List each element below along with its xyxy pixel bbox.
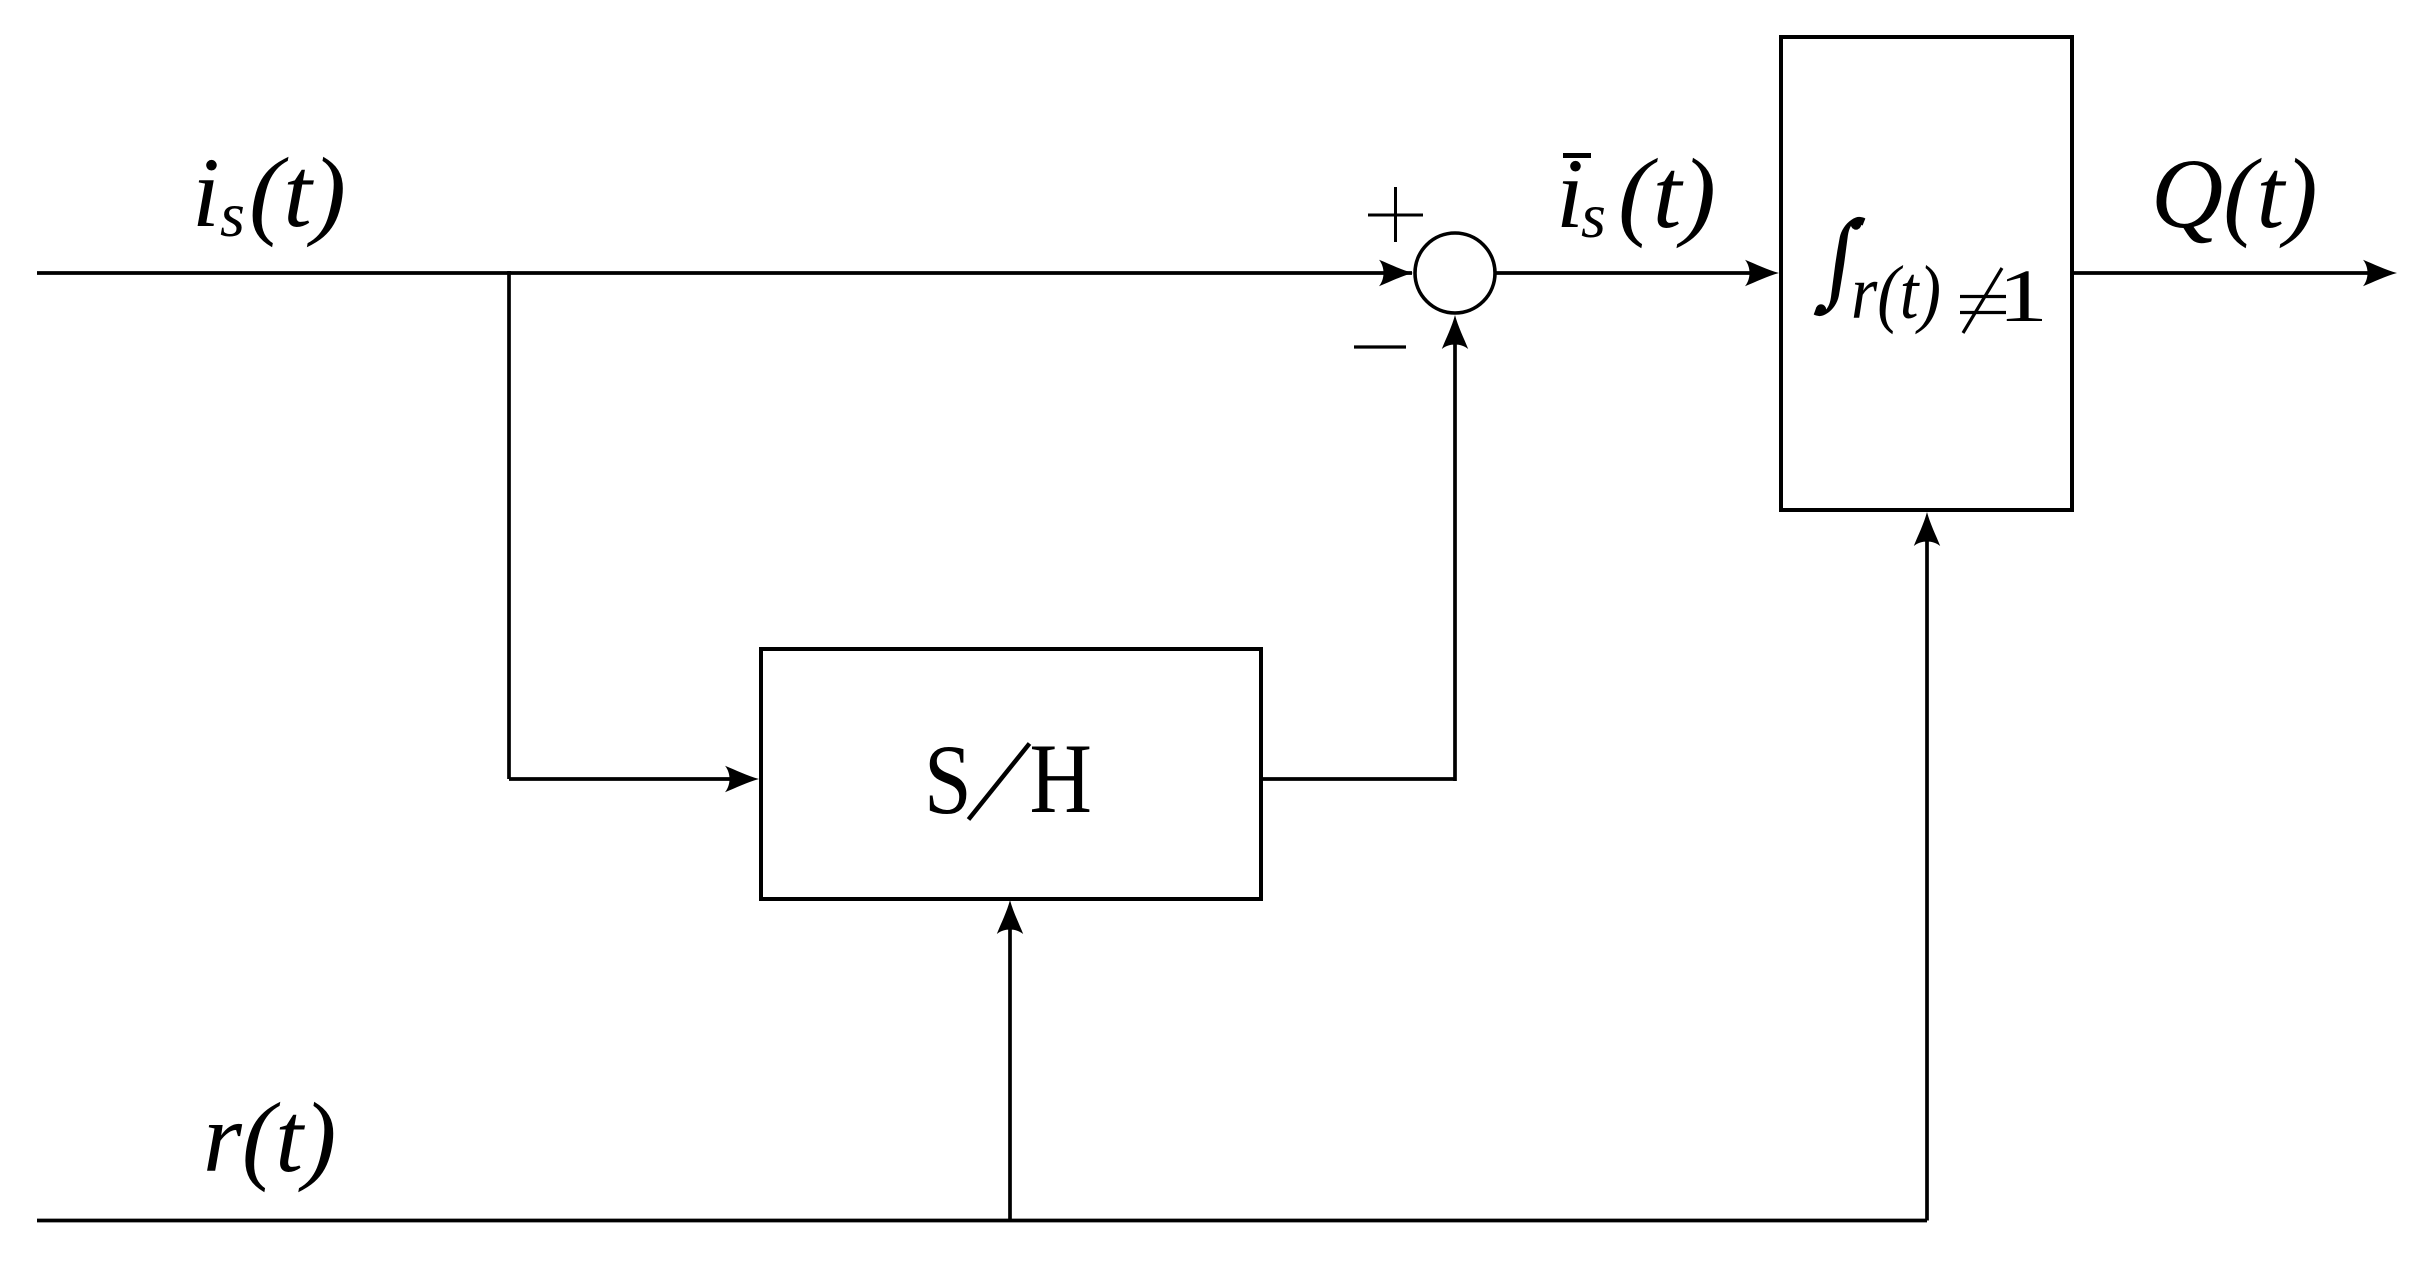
svg-text:r(t): r(t): [1851, 251, 1941, 335]
wire: branch down from top line to S/H: [507, 271, 511, 779]
arrowhead into summing junction bottom: [1442, 315, 1468, 349]
svg-text:H: H: [1030, 724, 1092, 834]
arrowhead into integrator: [1745, 260, 1779, 286]
summing junction circle: [1415, 233, 1495, 313]
arrowhead output end: [2363, 260, 2397, 286]
wire: branch up from bottom line into S/H bottom: [1008, 922, 1012, 1221]
integrator label: [1813, 199, 2048, 338]
minus sign: [1354, 345, 1406, 348]
svg-text:1: 1: [1998, 255, 2048, 338]
wire: summing junction to integrator: [1495, 271, 1758, 275]
svg-text:Q(t): Q(t): [2151, 138, 2318, 249]
wire: S/H output to summing junction: [1261, 777, 1455, 781]
svg-text:(t): (t): [249, 137, 346, 248]
node: i_s(t) input label: [192, 137, 346, 250]
S/H block box: [761, 649, 1261, 899]
wire: horizontal into S/H: [509, 777, 738, 781]
S/H label: [924, 725, 972, 836]
arrowhead into summing junction: [1379, 260, 1413, 286]
arrowhead into S/H bottom: [997, 900, 1023, 934]
wire: input i_s(t) top horizontal line: [37, 271, 1412, 275]
svg-text:i: i: [1556, 138, 1584, 249]
svg-text:s: s: [1581, 180, 1606, 251]
arrowhead into S/H left: [725, 766, 759, 792]
svg-text:s: s: [220, 179, 245, 250]
wire: output Q(t): [2072, 271, 2376, 275]
wire: bottom line up into integrator bottom: [1925, 534, 1929, 1221]
plus sign: [1368, 214, 1423, 217]
svg-text:S: S: [924, 725, 972, 836]
integrator block box: [1781, 37, 2072, 510]
node: i_s(t) bar label after sum: [1556, 138, 1716, 251]
svg-text:(t): (t): [1618, 138, 1716, 249]
svg-text:i: i: [192, 137, 220, 248]
svg-text:r(t): r(t): [203, 1082, 336, 1193]
wire: r(t) bottom horizontal line: [37, 1219, 1927, 1223]
arrowhead into integrator bottom: [1914, 512, 1940, 546]
